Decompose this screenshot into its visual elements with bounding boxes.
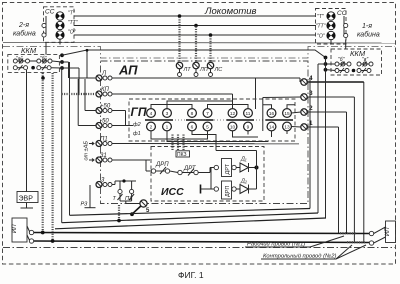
svg-text:3: 3 [166, 111, 169, 117]
svg-text:ГП: ГП [131, 105, 147, 119]
svg-text:ДРП: ДРП [155, 162, 169, 168]
svg-text:1-я: 1-я [362, 23, 372, 30]
svg-text:ИСС: ИСС [161, 186, 184, 198]
svg-text:СС: СС [45, 9, 55, 16]
svg-text:1: 1 [166, 125, 169, 131]
svg-text:15: 15 [284, 111, 290, 117]
svg-text:Локомотив: Локомотив [204, 6, 257, 17]
svg-text:14: 14 [269, 125, 275, 131]
svg-text:16: 16 [269, 111, 275, 117]
svg-text:ИП: ИП [385, 227, 391, 236]
svg-text:4: 4 [150, 111, 153, 117]
svg-text:ПКЗ: ПКЗ [177, 152, 186, 158]
svg-text:кабина: кабина [357, 31, 380, 39]
svg-text:ИП: ИП [12, 224, 18, 233]
svg-text:11: 11 [246, 111, 251, 117]
svg-text:10: 10 [230, 125, 236, 131]
svg-text:12: 12 [230, 111, 236, 117]
svg-text:"О": "О" [68, 30, 76, 36]
svg-text:АП: АП [118, 63, 138, 78]
svg-text:"О": "О" [317, 34, 326, 40]
svg-text:2-я: 2-я [18, 22, 29, 29]
svg-text:ФИГ. 1: ФИГ. 1 [178, 270, 204, 280]
svg-text:Д₁: Д₁ [240, 157, 247, 163]
svg-text:8: 8 [191, 111, 194, 117]
svg-text:"Т": "Т" [317, 14, 325, 20]
svg-text:Рабочий провод (№1): Рабочий провод (№1) [247, 241, 305, 248]
svg-text:7: 7 [206, 111, 209, 117]
svg-text:СС: СС [337, 10, 347, 17]
svg-text:ДРТ: ДРТ [225, 163, 231, 174]
svg-text:от ±АБ: от ±АБ [84, 141, 90, 161]
svg-text:ДРП: ДРП [225, 186, 231, 197]
svg-text:"ТТ": "ТТ" [316, 24, 327, 30]
svg-text:13: 13 [284, 125, 290, 131]
svg-text:5: 5 [206, 125, 209, 131]
svg-text:Контрольный провод (№2): Контрольный провод (№2) [263, 253, 337, 260]
svg-text:кабина: кабина [13, 30, 36, 38]
svg-text:ЛТ: ЛТ [183, 67, 192, 73]
svg-text:ф1: ф1 [133, 131, 141, 137]
svg-text:2: 2 [150, 125, 153, 131]
svg-text:ККМ: ККМ [21, 46, 37, 55]
svg-text:ЛП: ЛП [199, 67, 208, 73]
svg-text:6: 6 [191, 125, 194, 131]
svg-text:9: 9 [247, 125, 250, 131]
svg-text:ф2: ф2 [133, 122, 141, 128]
svg-text:"Т": "Т" [68, 11, 75, 17]
svg-text:"ТТ": "ТТ" [68, 20, 78, 26]
svg-text:ЭВР: ЭВР [19, 196, 34, 203]
svg-text:ЛС: ЛС [214, 67, 223, 73]
svg-text:Д₂: Д₂ [240, 179, 248, 185]
svg-text:РЗ: РЗ [81, 202, 89, 208]
